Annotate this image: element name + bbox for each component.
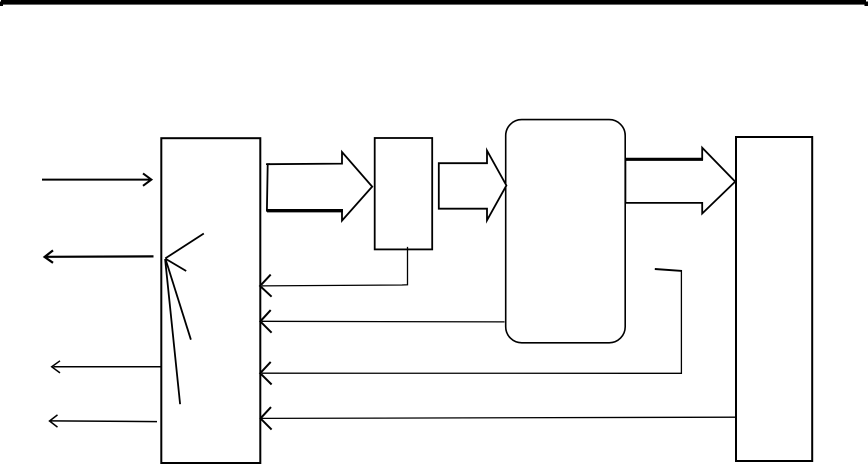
box B1 (left tall rectangle) — [161, 138, 260, 463]
output arrow O3 (thin, out of B1, y=421) — [50, 415, 158, 427]
feedback line F1 (from B2 bottom to B1) — [262, 247, 408, 286]
input arrow (thin, into B1) — [42, 173, 151, 185]
feedback line F2 (from B3 left side to B1) — [262, 320, 505, 323]
box B3 (rounded rectangle) — [506, 120, 626, 343]
block arrow A3 (B3 to B4) — [625, 148, 736, 214]
block arrow A1 (B1 to B2) — [266, 152, 372, 221]
box B2 (small rectangle) — [375, 138, 433, 249]
fan of lines inside B1 — [165, 234, 204, 405]
header rule left end cap — [0, 2, 3, 7]
arrowhead F3 — [260, 362, 271, 385]
feedback line F3 (hook from right of B3 down and left to B1) — [655, 269, 682, 271]
block arrow A2 (B2 to B3) — [439, 151, 507, 221]
header rule right end cap — [865, 2, 868, 7]
output arrow O2 (thin, out of B1, y=366) — [52, 361, 162, 373]
output arrow O1 (thin, out of B1, y=256) — [45, 250, 154, 262]
header rule — [1, 0, 866, 5]
feedback line F4 (from B4 to B1) — [262, 417, 736, 418]
box B4 (right tall rectangle) — [736, 137, 812, 461]
arrowhead F1 — [260, 275, 272, 297]
arrowhead F2 — [260, 310, 271, 333]
arrowhead F4 — [261, 407, 272, 430]
